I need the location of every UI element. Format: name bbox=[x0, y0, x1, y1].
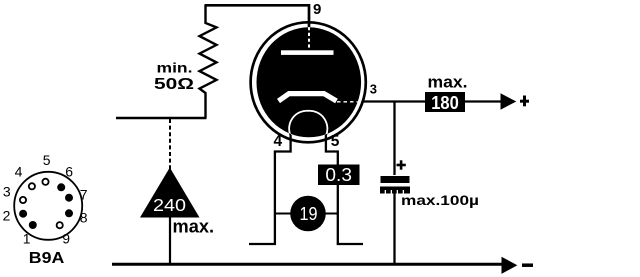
B9A pin 5 (open) bbox=[42, 179, 48, 185]
svg-text:4: 4 bbox=[15, 163, 23, 179]
tube cathode (white bent line) bbox=[279, 94, 337, 101]
svg-text:3: 3 bbox=[370, 82, 377, 97]
B9A pin 9 (open) bbox=[57, 222, 63, 228]
wire: triangle to bottom rail bbox=[169, 217, 171, 264]
label + (output) bbox=[520, 96, 529, 107]
capacitor plate (negative, hatched) bbox=[380, 187, 410, 194]
B9A pin 2 (filled) bbox=[19, 210, 27, 218]
svg-text:8: 8 bbox=[80, 209, 88, 225]
arrow: negative output bbox=[502, 257, 518, 274]
svg-text:9: 9 bbox=[62, 231, 70, 247]
svg-text:5: 5 bbox=[331, 133, 340, 150]
output voltage box 180 bbox=[425, 92, 465, 112]
svg-text:9: 9 bbox=[313, 1, 321, 18]
tube inner disc bbox=[257, 27, 362, 137]
mains voltage symbol: triangle 240 bbox=[140, 168, 200, 218]
svg-text:max.: max. bbox=[173, 217, 215, 237]
arrow: positive output bbox=[501, 93, 517, 109]
svg-text:0.3: 0.3 bbox=[325, 165, 352, 185]
tube cathode dashed link to pin 3 bbox=[337, 101, 358, 103]
wire: top line to anode pin 9 bbox=[205, 5, 310, 27]
pin 4 heater lead bbox=[249, 135, 291, 244]
B9A pin 4 (open) bbox=[29, 183, 35, 189]
wire: dashed mains feed to triangle bbox=[169, 119, 171, 170]
label + (capacitor polarity) bbox=[397, 160, 406, 169]
tube heater dome (white stroke over disc) bbox=[289, 111, 327, 136]
svg-text:6: 6 bbox=[65, 163, 73, 179]
tube anode top lead (white dashed inside disc) bbox=[308, 27, 310, 50]
svg-text:19: 19 bbox=[300, 204, 318, 224]
label minus bbox=[522, 263, 533, 267]
heater voltage circle 19 bbox=[290, 196, 326, 232]
svg-text:4: 4 bbox=[273, 133, 282, 150]
B9A pin 7 (filled) bbox=[65, 194, 73, 202]
resistor min 50 ohm bbox=[200, 5, 217, 118]
tube anode plate (white bar) bbox=[281, 50, 334, 55]
pin 5 heater lead bbox=[326, 135, 363, 244]
tube envelope outer circle bbox=[251, 22, 366, 142]
svg-text:5: 5 bbox=[43, 152, 51, 168]
bottom rail (negative output) bbox=[112, 263, 503, 266]
B9A pin 8 (filled) bbox=[65, 209, 73, 217]
svg-text:50Ω: 50Ω bbox=[154, 76, 194, 93]
svg-text:max.100µ: max.100µ bbox=[401, 193, 479, 208]
svg-text:B9A: B9A bbox=[29, 250, 65, 267]
tube heater dome (outside part, black) bbox=[289, 111, 327, 136]
svg-text:min.: min. bbox=[157, 61, 193, 76]
B9A base outline bbox=[14, 172, 82, 240]
B9A pin 1 (filled) bbox=[29, 221, 37, 229]
wire: capacitor to bottom rail bbox=[393, 192, 395, 264]
wire: heater circle to pin5 lead bbox=[325, 213, 338, 215]
heater current box 0.3 bbox=[318, 165, 360, 186]
B9A pin 6 (filled) bbox=[57, 183, 65, 191]
wire: pin4 lead to heater circle bbox=[275, 213, 291, 215]
svg-text:240: 240 bbox=[153, 195, 186, 215]
svg-text:2: 2 bbox=[3, 207, 11, 223]
wire: cathode output (pin 3 to +) bbox=[364, 100, 504, 102]
capacitor plate (positive) bbox=[381, 176, 410, 183]
svg-text:180: 180 bbox=[431, 92, 459, 113]
wire: junction to capacitor bbox=[393, 102, 395, 176]
svg-text:7: 7 bbox=[80, 187, 88, 203]
svg-text:3: 3 bbox=[3, 183, 11, 199]
svg-text:1: 1 bbox=[23, 231, 31, 247]
svg-text:max.: max. bbox=[428, 74, 468, 92]
B9A pin 3 (open) bbox=[20, 197, 26, 203]
wire: AC input line bbox=[116, 117, 207, 120]
